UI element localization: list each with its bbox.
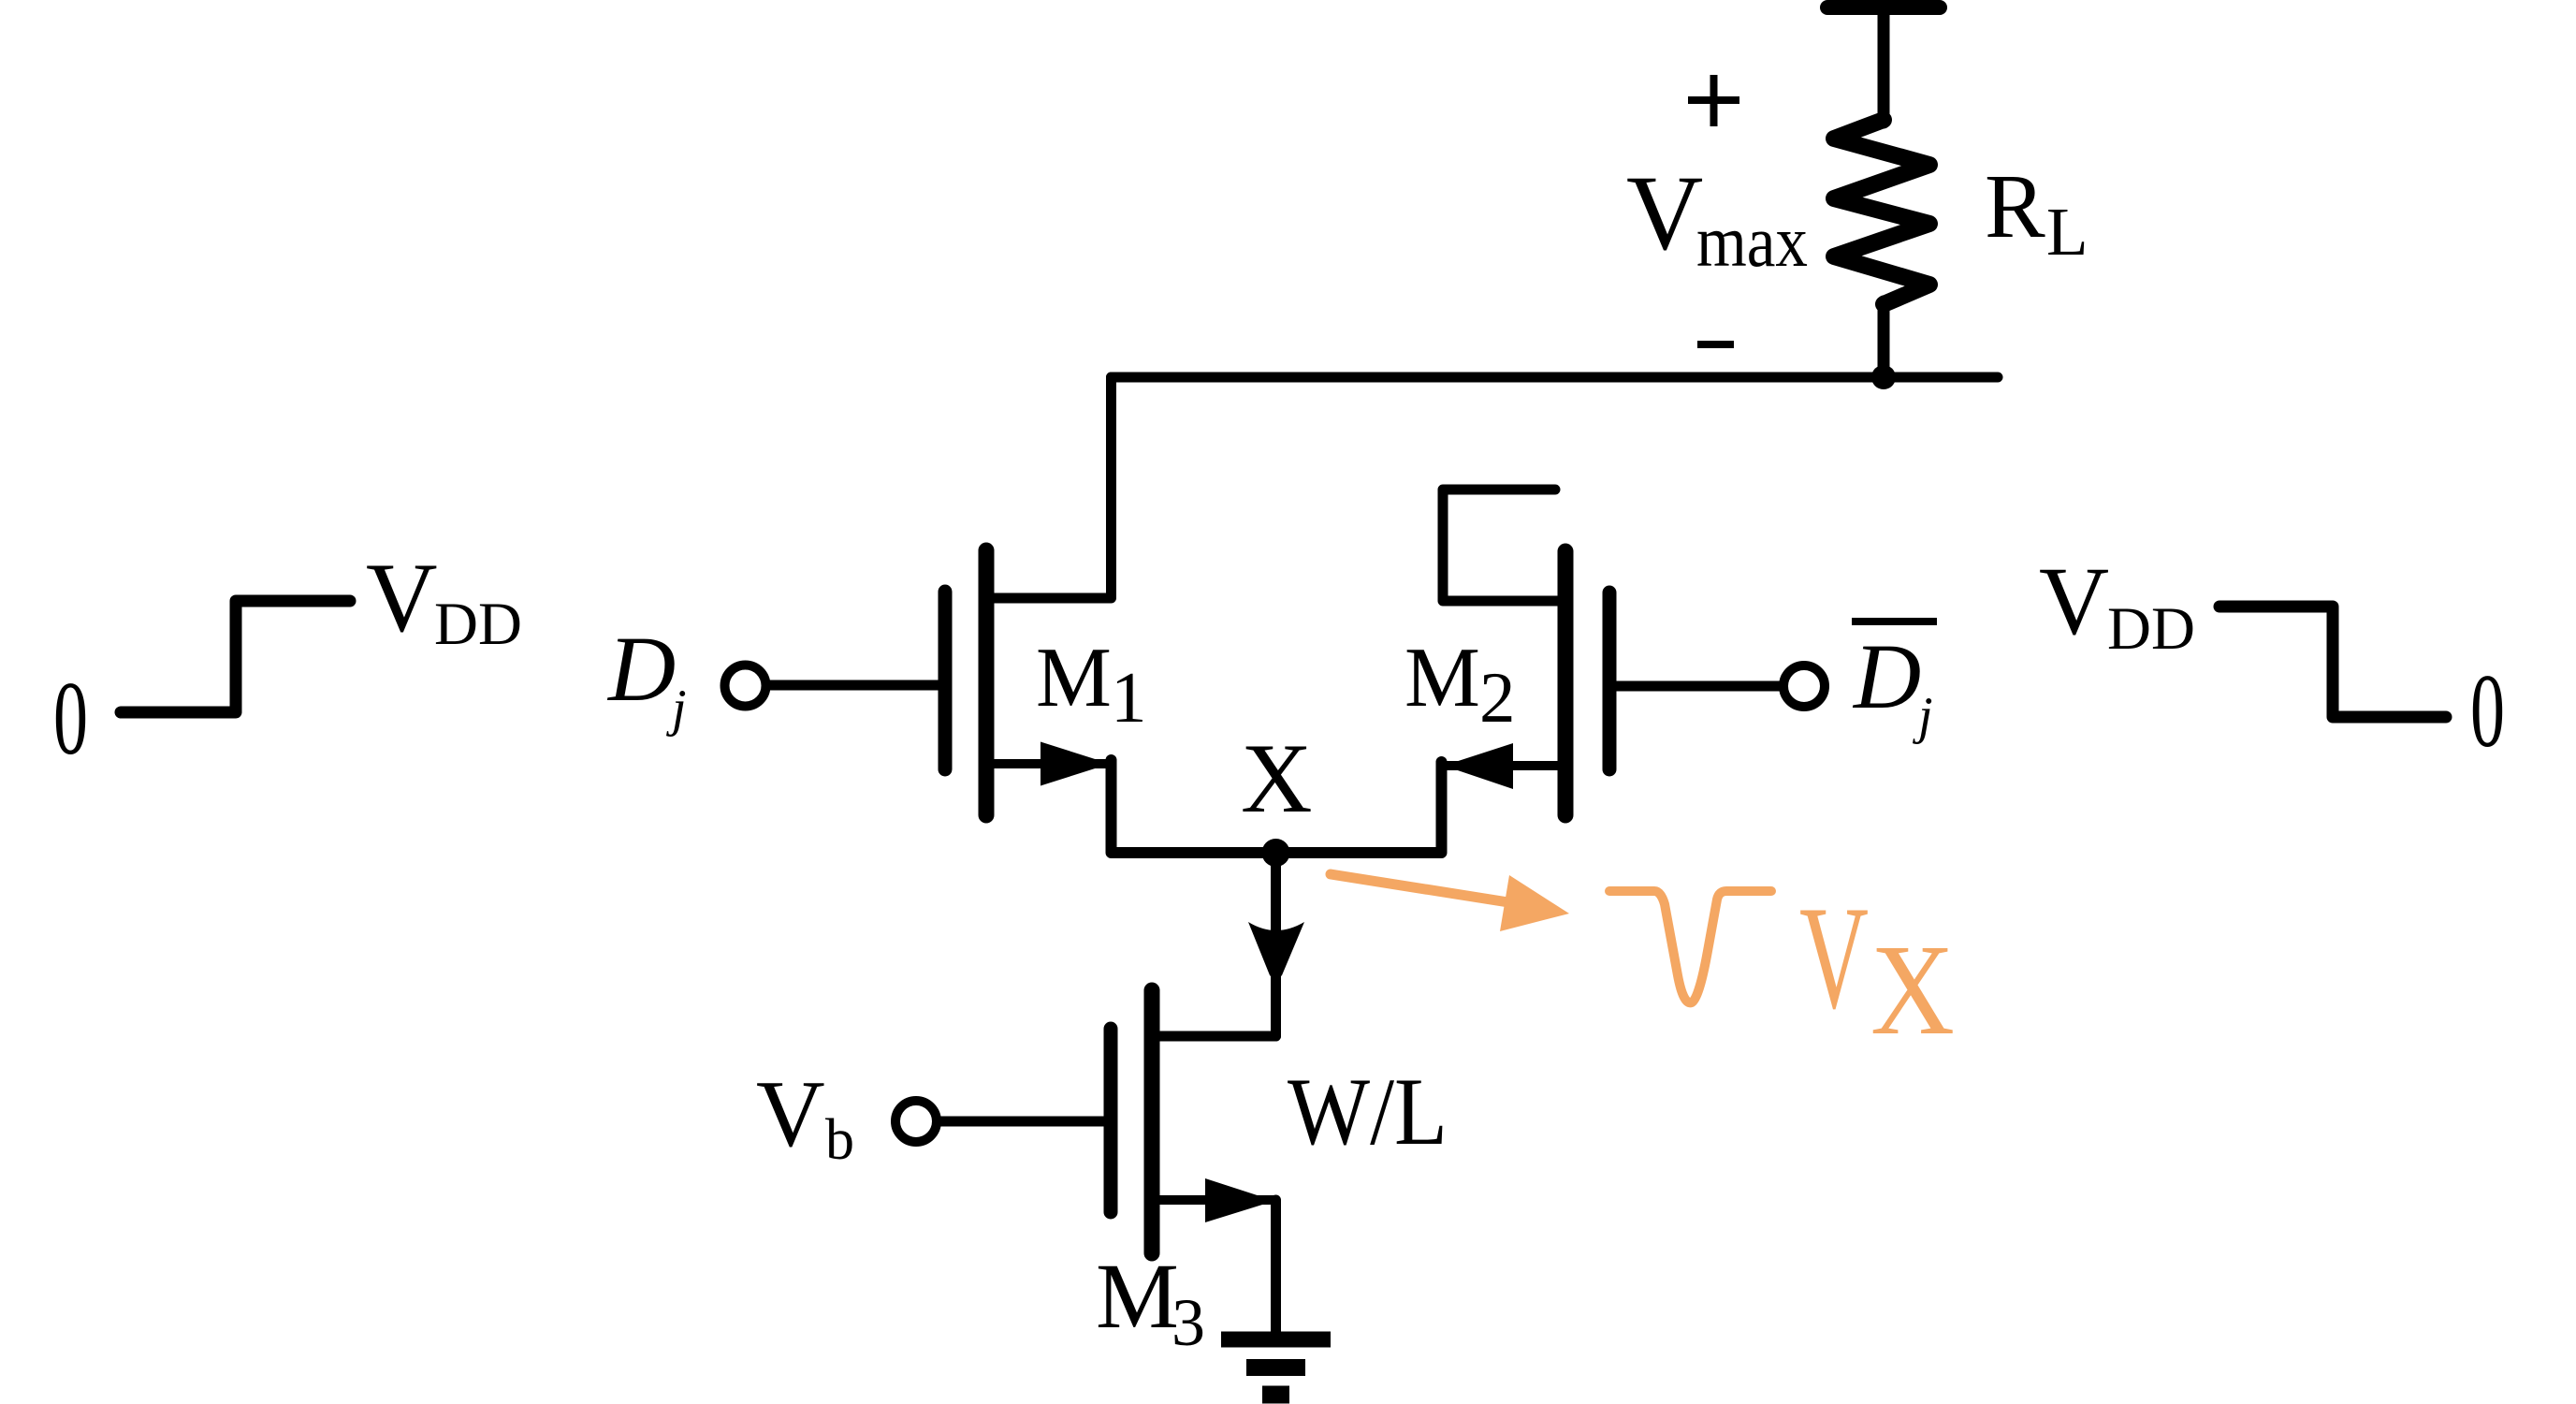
svg-text:M: M: [1096, 1244, 1179, 1348]
transistor M1: [769, 377, 1112, 815]
svg-text:V: V: [756, 1061, 825, 1167]
orange VX pulse waveform: [1609, 891, 1771, 1002]
M1 gate bar: [939, 592, 953, 769]
junction dot output node: [1871, 365, 1896, 389]
svg-text:0: 0: [53, 661, 88, 777]
M2 source arrow: [1444, 743, 1513, 789]
M2 gate lead: [1616, 681, 1781, 692]
wire resistor to output node: [1878, 301, 1890, 377]
plus sign: [1688, 75, 1739, 126]
ground symbol: [1221, 1339, 1331, 1395]
svg-text:V: V: [1626, 154, 1703, 272]
resistor RL zigzag: [1834, 120, 1929, 304]
svg-text:2: 2: [1479, 657, 1516, 738]
M1 channel bar: [979, 550, 995, 815]
svg-text:DD: DD: [434, 591, 522, 658]
svg-text:V: V: [366, 543, 438, 652]
transistor M2: [1443, 490, 1781, 815]
svg-text:X: X: [1870, 918, 1955, 1062]
minus sign: [1697, 341, 1734, 348]
svg-text:1: 1: [1111, 657, 1147, 738]
Dj terminal circle: [725, 665, 766, 707]
M1 source lead: [990, 759, 1109, 768]
output wire: [1112, 373, 1999, 383]
svg-text:V: V: [1799, 876, 1869, 1040]
M3 gate lead: [941, 1117, 1104, 1127]
svg-text:3: 3: [1172, 1285, 1205, 1360]
current direction arrowhead: [1248, 922, 1304, 979]
M2 drain hook wire: [1443, 490, 1562, 601]
svg-text:W/L: W/L: [1288, 1059, 1448, 1165]
Dj-bar overline: [1852, 618, 1937, 625]
left step waveform 0 to VDD: [121, 601, 350, 712]
Vb terminal circle: [895, 1101, 937, 1142]
M3 source lead: [1156, 1195, 1273, 1205]
transistor M3: [941, 990, 1276, 1335]
M1 drain lead: [990, 377, 1112, 598]
junction dot X: [1262, 839, 1290, 867]
svg-text:D: D: [1852, 624, 1921, 728]
svg-text:0: 0: [2470, 653, 2505, 769]
wire supply to resistor: [1878, 7, 1890, 123]
svg-text:M: M: [1036, 630, 1112, 724]
M2 source lead: [1446, 761, 1562, 770]
svg-text:X: X: [1241, 724, 1313, 833]
M3 source arrow: [1205, 1178, 1274, 1222]
M3 source riser to ground: [1271, 1200, 1281, 1335]
orange annotation arrow shaft: [1331, 874, 1508, 902]
Dj-bar terminal circle: [1783, 665, 1825, 707]
svg-text:R: R: [1985, 156, 2045, 256]
M1 source arrow: [1041, 742, 1110, 786]
M3 drain lead: [1156, 1031, 1276, 1042]
node X wire: [1112, 760, 1442, 853]
svg-text:D: D: [606, 617, 676, 721]
svg-text:L: L: [2046, 194, 2088, 270]
svg-text:DD: DD: [2107, 595, 2195, 663]
orange annotation arrowhead: [1500, 875, 1569, 931]
wire X to M3 drain: [1159, 853, 1276, 1036]
M2 gate bar: [1603, 592, 1617, 769]
svg-text:V: V: [2039, 548, 2109, 655]
right step waveform VDD to 0: [2219, 607, 2446, 717]
M1 gate lead: [769, 680, 939, 691]
VDD supply bar: [1827, 0, 1940, 15]
svg-text:b: b: [825, 1108, 854, 1172]
svg-text:M: M: [1404, 630, 1480, 724]
M3 gate bar: [1104, 1029, 1118, 1212]
M3 channel bar: [1144, 990, 1160, 1253]
svg-text:max: max: [1696, 200, 1808, 282]
M2 channel bar: [1558, 551, 1574, 815]
